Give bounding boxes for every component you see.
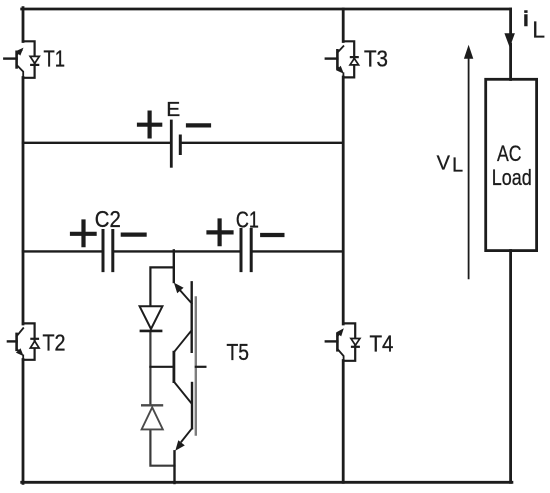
svg-text:Load: Load bbox=[492, 165, 532, 190]
svg-text:L: L bbox=[452, 154, 463, 176]
svg-text:E: E bbox=[166, 99, 180, 121]
svg-text:T4: T4 bbox=[370, 331, 394, 357]
svg-text:i: i bbox=[523, 8, 529, 31]
svg-text:C2: C2 bbox=[95, 206, 121, 232]
svg-text:C1: C1 bbox=[236, 207, 259, 233]
svg-text:T1: T1 bbox=[44, 46, 66, 72]
svg-text:L: L bbox=[532, 16, 545, 42]
svg-text:T3: T3 bbox=[364, 46, 388, 72]
svg-text:AC: AC bbox=[497, 141, 522, 166]
svg-text:T2: T2 bbox=[43, 330, 66, 356]
svg-text:V: V bbox=[437, 153, 451, 175]
svg-text:T5: T5 bbox=[227, 339, 250, 365]
